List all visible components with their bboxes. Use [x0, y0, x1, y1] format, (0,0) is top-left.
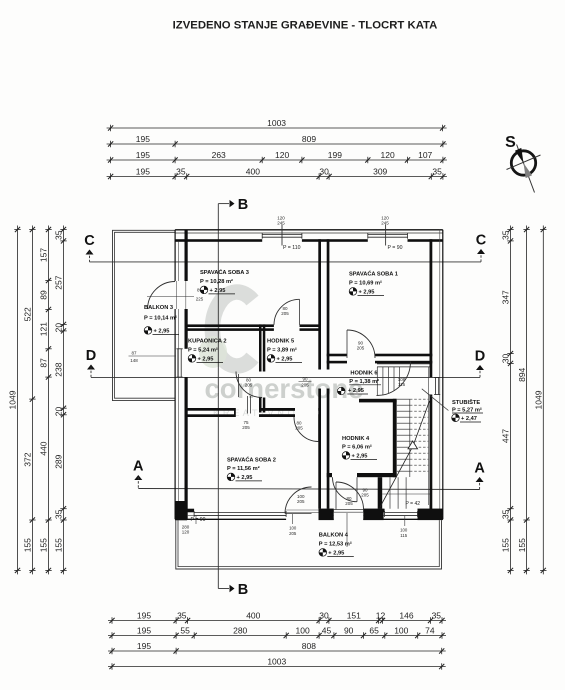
top dimension row 1003: [107, 127, 447, 129]
svg-text:121: 121: [39, 322, 49, 336]
svg-text:120: 120: [381, 150, 395, 160]
stair direction arrow: [408, 441, 418, 449]
wall soba3 bottom upper line: [185, 324, 274, 327]
svg-text:+ 2,95: + 2,95: [359, 289, 375, 295]
svg-text:C: C: [476, 233, 487, 249]
svg-text:205: 205: [245, 383, 253, 388]
north arrow compass circle: [511, 151, 535, 175]
window bottom soba2 size label: [195, 516, 197, 524]
wall end cap at x235: [234, 408, 236, 417]
wall kupaonica row bottom / soba2 top: [185, 408, 236, 411]
right exterior wall inner leaf: [430, 239, 433, 377]
stubiste label leader line: [422, 389, 449, 411]
svg-text:+ 2,47: + 2,47: [461, 416, 477, 422]
svg-text:D: D: [86, 348, 96, 364]
svg-text:115: 115: [400, 533, 407, 538]
svg-text:55: 55: [180, 626, 190, 636]
svg-text:S: S: [505, 134, 516, 151]
section line D-D: [91, 376, 480, 378]
svg-text:STUBIŠTE: STUBIŠTE: [452, 398, 480, 406]
svg-text:205: 205: [301, 383, 309, 388]
svg-text:IZVEDENO STANJE GRAĐEVINE - TL: IZVEDENO STANJE GRAĐEVINE - TLOCRT KATA: [173, 19, 438, 31]
door leaf open kupaonica-soba2 wall: [247, 396, 249, 414]
wall soba3 bottom lower line: [185, 328, 274, 331]
window top wall P=110 spavaca soba 3: [262, 234, 302, 236]
bottom exterior wall inner leaf: [187, 509, 194, 513]
left exterior wall inner leaf: [185, 230, 188, 281]
svg-text:SPAVAĆA SOBA 3: SPAVAĆA SOBA 3: [200, 268, 249, 276]
section line C-C: [90, 261, 482, 263]
svg-text:+ 2,95: + 2,95: [277, 356, 293, 362]
svg-text:87: 87: [131, 351, 137, 356]
door balkon3 label leader: [147, 296, 194, 298]
svg-text:205: 205: [357, 346, 365, 351]
window top wall P=90 spavaca soba 1: [368, 234, 408, 236]
hodnik4 right wall: [393, 399, 397, 477]
svg-text:P = 6,06 m²: P = 6,06 m²: [342, 444, 372, 451]
bottom exterior wall thin line: [175, 514, 286, 516]
svg-text:SPAVAĆA SOBA 2: SPAVAĆA SOBA 2: [227, 456, 276, 464]
left dimension column 1049: [17, 226, 19, 575]
svg-text:P = 1,38 m²: P = 1,38 m²: [349, 378, 379, 385]
window top P=90 size leader: [385, 225, 387, 246]
left dimension column 35/257/20/238/20/289/35/155: [63, 226, 65, 575]
section line C-C riser left: [89, 252, 91, 262]
svg-text:120: 120: [275, 150, 289, 160]
north arrow hatched wedge: [524, 163, 533, 178]
left exterior wall outer line: [174, 230, 176, 281]
hodnik4 bottom wall: [327, 473, 332, 477]
section line B-B vertical: [217, 204, 219, 589]
door soba3 to hodnik5 swing: [274, 299, 300, 325]
svg-text:289: 289: [54, 454, 64, 468]
top exterior wall outer lines: [175, 229, 443, 231]
watermark cornerstone logo C: [212, 292, 252, 366]
stair top wall below soba1 wall: [377, 363, 430, 365]
svg-text:35: 35: [501, 509, 511, 519]
bottom wall pier between doors and window: [363, 509, 383, 520]
svg-text:P = 90: P = 90: [388, 245, 403, 251]
bottom exterior wall outer line: [175, 518, 286, 520]
hodnik4 top wall: [359, 399, 396, 403]
svg-text:195: 195: [136, 134, 150, 144]
svg-text:107: 107: [418, 150, 432, 160]
svg-text:440: 440: [39, 441, 49, 455]
wall piece between kupaonica door and soba2 door: [259, 408, 295, 411]
top dimension row 195/35/400/30/309/35: [107, 176, 447, 178]
stair lower landing line: [382, 493, 429, 495]
svg-text:90: 90: [344, 626, 354, 636]
svg-text:1003: 1003: [267, 118, 286, 128]
vestibule-stair divider wall 12cm: [378, 477, 383, 509]
svg-text:HODNIK 6: HODNIK 6: [350, 371, 377, 377]
balcony 3 outline: [113, 230, 176, 400]
svg-text:100: 100: [394, 626, 408, 636]
svg-text:35: 35: [501, 230, 511, 240]
section line A-A riser right: [479, 479, 481, 490]
svg-text:400: 400: [246, 167, 260, 177]
svg-text:65: 65: [369, 626, 379, 636]
svg-text:522: 522: [23, 307, 33, 321]
svg-text:SPAVAĆA SOBA 1: SPAVAĆA SOBA 1: [349, 270, 398, 278]
section marker B top: [218, 203, 229, 205]
svg-text:HODNIK 4: HODNIK 4: [342, 436, 370, 442]
svg-text:205: 205: [361, 493, 369, 498]
watermark green tint patch: [199, 336, 227, 368]
right exterior wall outer line: [442, 230, 444, 520]
door soba3 to balkon3 swing: [148, 282, 176, 310]
door soba2 balcony label leader: [292, 514, 294, 524]
svg-text:195: 195: [136, 167, 150, 177]
bottom dimension row 195/55/280/100/45/90/65/100/74: [108, 635, 446, 637]
north arrow cross line: [507, 155, 541, 170]
door hodnik4 to balkon4 swing: [336, 482, 364, 510]
svg-text:87: 87: [39, 358, 49, 368]
right dimension column 35/347/30/447/35/155: [510, 226, 512, 575]
left dimension column 522/372/155: [31, 226, 33, 575]
svg-text:205: 205: [242, 425, 250, 430]
svg-text:P = 5,27 m²: P = 5,27 m²: [452, 406, 482, 413]
section line A-A riser left: [137, 477, 139, 489]
svg-text:894: 894: [517, 367, 527, 381]
svg-text:151: 151: [347, 611, 361, 621]
left dimension column 157/89/121/87/440/155: [48, 226, 50, 575]
section marker B bottom: [218, 588, 229, 590]
svg-text:205: 205: [289, 531, 297, 536]
svg-text:146: 146: [399, 611, 413, 621]
svg-text:257: 257: [54, 275, 64, 289]
window right wall stubiste 108/115: [435, 378, 437, 395]
svg-text:155: 155: [501, 538, 511, 552]
svg-text:100: 100: [400, 528, 408, 533]
svg-text:155: 155: [54, 538, 64, 552]
svg-text:100: 100: [289, 526, 297, 531]
svg-text:100: 100: [296, 626, 310, 636]
svg-text:P = 3,89 m²: P = 3,89 m²: [267, 347, 297, 354]
svg-text:B: B: [238, 582, 248, 598]
svg-text:157: 157: [39, 248, 49, 262]
svg-text:D: D: [475, 349, 485, 365]
svg-text:809: 809: [302, 134, 316, 144]
bottom-left building corner block: [175, 501, 187, 520]
bottom dimension row 195/808: [108, 650, 446, 652]
door soba2 balkon4 threshold lines: [286, 509, 318, 511]
svg-text:B: B: [238, 197, 248, 213]
svg-text:35: 35: [54, 230, 64, 240]
svg-text:155: 155: [517, 538, 527, 552]
balcony 4 outline: [176, 520, 442, 569]
wall kupaonica-hodnik5 divider: [259, 324, 262, 371]
stair edge line: [428, 367, 430, 505]
bottom dimension row 1003: [108, 666, 446, 668]
door stair top swing: [377, 362, 411, 396]
svg-text:A: A: [474, 461, 485, 477]
svg-text:245: 245: [381, 221, 389, 226]
svg-text:45: 45: [322, 626, 332, 636]
svg-text:KUPAONICA 2: KUPAONICA 2: [188, 339, 227, 345]
stair direction line: [380, 401, 430, 508]
svg-text:205: 205: [281, 311, 289, 316]
svg-text:89: 89: [39, 290, 49, 300]
stair treads upper flight: [397, 398, 410, 400]
svg-text:148: 148: [130, 358, 138, 363]
window kupaonica label leader: [140, 355, 176, 357]
svg-text:225: 225: [196, 297, 204, 302]
right dimension column 894/155: [526, 226, 528, 575]
svg-text:195: 195: [137, 626, 151, 636]
svg-text:347: 347: [501, 290, 511, 304]
door soba2 to hodnik5 swing: [294, 417, 319, 442]
svg-text:P = 10,28 m²: P = 10,28 m²: [200, 278, 233, 285]
right dimension column 1049: [542, 226, 544, 575]
svg-text:195: 195: [137, 611, 151, 621]
svg-text:195: 195: [136, 150, 150, 160]
svg-text:74: 74: [425, 626, 435, 636]
window P42 label leader: [404, 516, 406, 526]
north arrow solid wedge: [515, 148, 524, 163]
svg-text:35: 35: [432, 167, 442, 177]
door soba1 to hodnik6 swing: [347, 330, 375, 358]
svg-text:+ 2,95: + 2,95: [198, 356, 214, 362]
svg-text:35: 35: [432, 611, 442, 621]
svg-text:35: 35: [177, 611, 187, 621]
svg-text:309: 309: [373, 167, 387, 177]
svg-text:372: 372: [23, 452, 33, 466]
svg-text:1049: 1049: [534, 390, 544, 409]
wall soba1 bottom lower line: [327, 361, 347, 364]
window top P=110 size leader: [281, 225, 283, 246]
svg-text:+ 2,95: + 2,95: [348, 388, 364, 394]
bottom-right building corner block: [418, 509, 443, 520]
window bottom wall P=90 spavaca soba 2: [194, 512, 286, 514]
door hodnik4 balcony threshold: [334, 509, 364, 511]
svg-text:HODNIK 5: HODNIK 5: [267, 339, 294, 345]
svg-text:1049: 1049: [8, 390, 18, 409]
svg-text:120: 120: [182, 530, 190, 535]
window left wall kupaonica 87/148: [177, 349, 179, 377]
svg-text:280: 280: [233, 626, 247, 636]
hodnik4 right wall outer thin line: [396, 399, 398, 477]
svg-text:P = 42: P = 42: [406, 501, 421, 507]
north arrow axis line NE-SW: [517, 145, 535, 193]
middle wall right line: [327, 239, 330, 369]
svg-text:C: C: [84, 233, 95, 249]
svg-text:35: 35: [176, 167, 186, 177]
top exterior wall inner leaf: [175, 239, 262, 242]
door hodnik4 label leader: [346, 513, 348, 547]
door vestibule to hodnik4 swing: [333, 477, 358, 502]
svg-text:30: 30: [319, 611, 329, 621]
bottom wall pier middle wall foot: [319, 509, 334, 520]
svg-text:BALKON 4: BALKON 4: [319, 533, 349, 539]
door soba2 to balkon4 swing: [285, 487, 312, 514]
section line D-D riser right: [479, 367, 481, 377]
stair center rail line: [409, 399, 411, 477]
svg-text:30: 30: [501, 354, 511, 364]
section line C-C riser right: [480, 251, 482, 262]
svg-text:P = 110: P = 110: [283, 245, 301, 251]
svg-text:400: 400: [246, 611, 260, 621]
svg-text:238: 238: [54, 362, 64, 376]
svg-text:+ 2,95: + 2,95: [210, 288, 226, 294]
door kupaonica swing: [236, 372, 262, 398]
wall soba1 bottom upper line: [327, 354, 347, 357]
svg-text:155: 155: [39, 538, 49, 552]
svg-text:35: 35: [54, 509, 64, 519]
svg-text:205: 205: [297, 499, 305, 504]
section line A-A: [138, 489, 479, 490]
svg-text:BALKON 3: BALKON 3: [144, 305, 173, 311]
svg-text:+ 2,95: + 2,95: [328, 550, 344, 556]
svg-text:199: 199: [328, 150, 342, 160]
window bottom wall P=42 stubiste: [385, 512, 418, 514]
svg-text:+ 2,95: + 2,95: [352, 453, 368, 459]
svg-text:808: 808: [302, 641, 316, 651]
svg-text:A: A: [133, 459, 144, 475]
left exterior wall thin line: [177, 242, 179, 282]
svg-text:+ 2,95: + 2,95: [154, 328, 170, 334]
section line D-D riser left: [90, 367, 92, 378]
svg-text:205: 205: [345, 501, 353, 506]
bottom dimension row 195/35/400/30/151/12/146/35: [108, 620, 446, 622]
svg-text:263: 263: [212, 150, 226, 160]
stair winder treads vertical: [376, 367, 378, 396]
svg-text:245: 245: [277, 221, 285, 226]
svg-text:P = 11,56 m²: P = 11,56 m²: [227, 465, 260, 472]
svg-text:P = 5,24 m²: P = 5,24 m²: [188, 347, 218, 354]
svg-text:30: 30: [319, 167, 329, 177]
door balkon3 threshold lines: [175, 281, 177, 309]
svg-text:195: 195: [137, 641, 151, 651]
svg-text:P = 10,14 m²: P = 10,14 m²: [144, 315, 177, 322]
svg-text:90: 90: [302, 376, 308, 381]
svg-text:205: 205: [295, 426, 303, 431]
stair lower flight treads vertical: [389, 477, 391, 509]
right exterior wall thin line: [439, 230, 441, 520]
svg-text:155: 155: [23, 538, 33, 552]
svg-text:447: 447: [501, 429, 511, 443]
svg-text:P = 12,53 m²: P = 12,53 m²: [319, 541, 352, 548]
svg-text:P = 10,69 m²: P = 10,69 m²: [349, 280, 382, 287]
middle wall left line soba3-soba1 divider: [318, 239, 321, 369]
svg-text:+ 2,95: + 2,95: [237, 475, 253, 481]
svg-text:1003: 1003: [267, 657, 286, 667]
top dimension row 195/809: [107, 143, 447, 145]
top dimension row 195/263/120/199/120/107: [107, 159, 447, 161]
svg-text:P = 90: P = 90: [191, 517, 206, 523]
